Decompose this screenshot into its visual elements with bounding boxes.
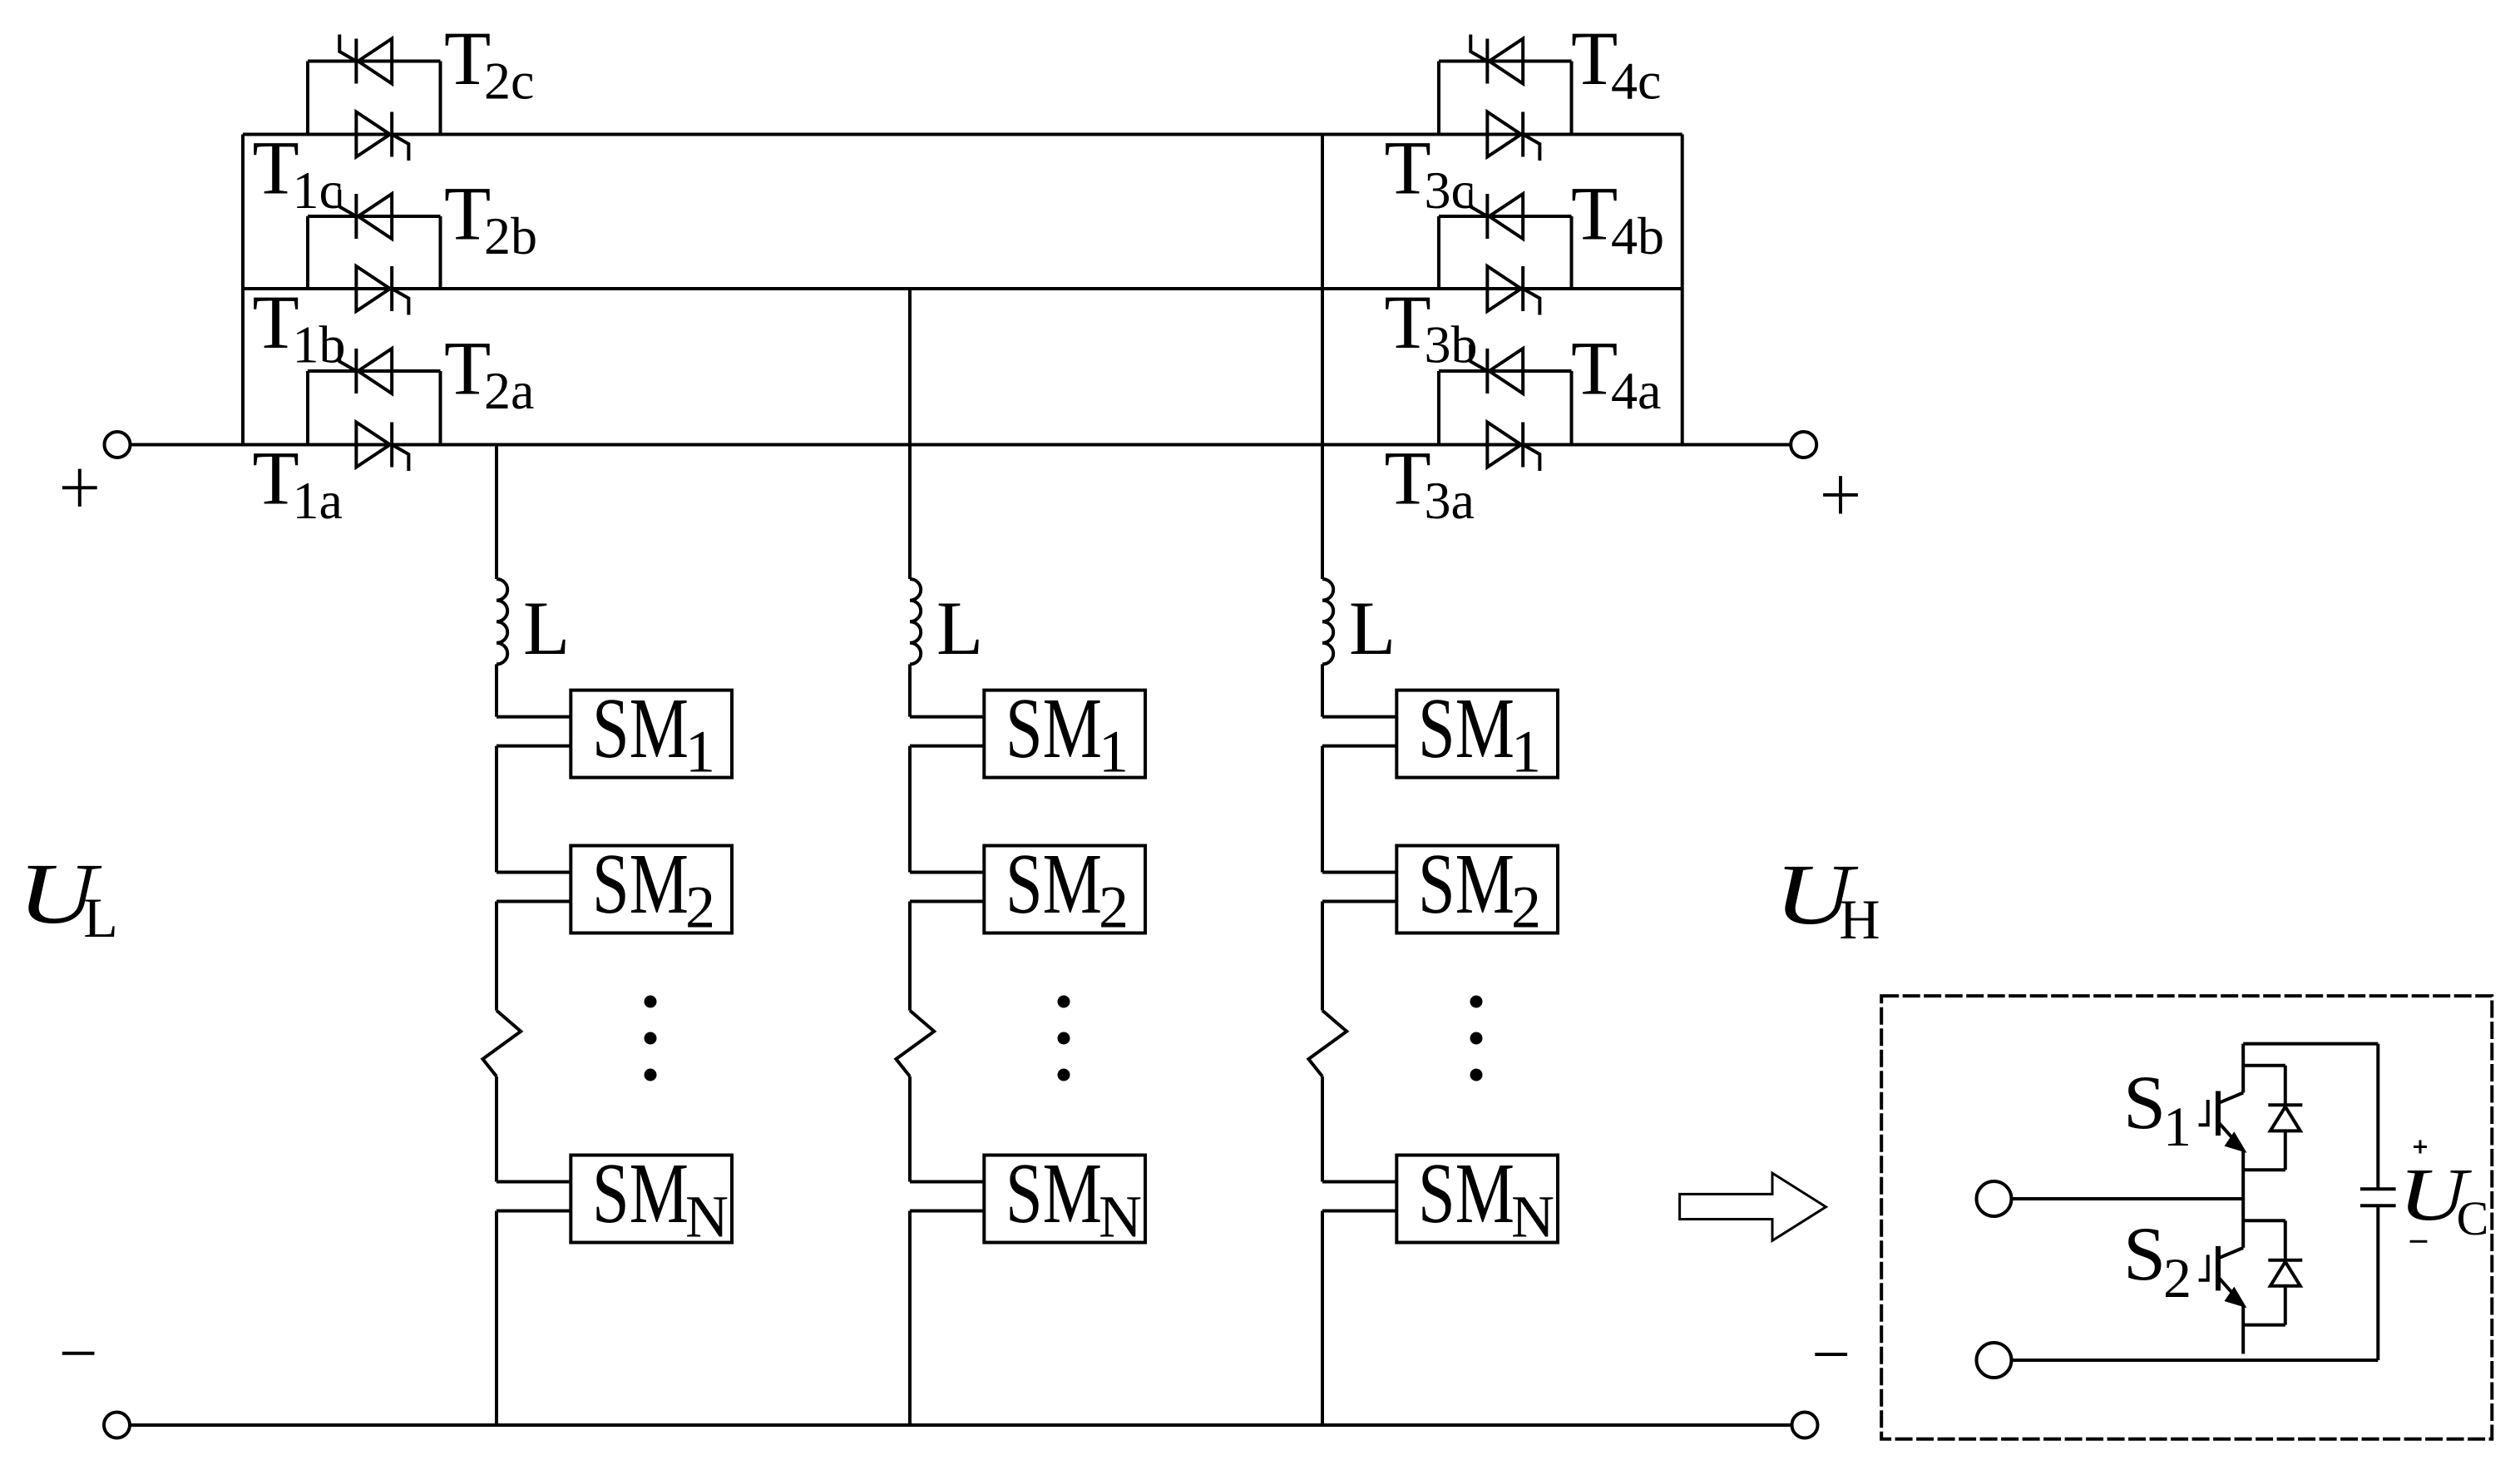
svg-text:S: S — [2123, 1211, 2166, 1296]
svg-text:4c: 4c — [1611, 52, 1661, 111]
wire leg 3 coil to SM1 — [1321, 664, 1324, 716]
svg-text:H: H — [1839, 888, 1880, 951]
thyristor T2a (left-pointing) — [339, 344, 392, 393]
svg-text:2: 2 — [1511, 874, 1541, 941]
thyristor T4c (left-pointing) — [1470, 35, 1523, 84]
thyristor T1b (right-pointing) — [356, 266, 408, 315]
wire top bus row c — [243, 133, 1682, 136]
thyristor T1a (right-pointing) — [356, 423, 408, 472]
svg-text:3c: 3c — [1425, 161, 1475, 220]
wire leg 1 upper vertical — [495, 445, 498, 580]
wire bottom negative bus — [130, 1423, 1792, 1427]
diode D2 antiparallel with S2 — [2243, 1220, 2302, 1324]
dashed submodule detail box — [1881, 996, 2492, 1439]
label UC — [2399, 1154, 2473, 1236]
wire row a right pair left connector — [1437, 371, 1440, 445]
svg-text:3a: 3a — [1425, 471, 1475, 530]
wire leg 3 SMN bottom terminal — [1322, 1210, 1396, 1213]
wire leg 1 SM1 top terminal — [497, 715, 571, 719]
wire row a left pair left connector — [306, 371, 309, 445]
wire main positive bus (left + to right +) — [131, 443, 1791, 447]
wire leg 3 SM2 bottom terminal — [1322, 900, 1396, 903]
svg-text:C: C — [2457, 1191, 2489, 1245]
wire leg 2 upper vertical — [908, 289, 912, 579]
wire leg 2 lower vertical to bottom bus — [908, 1211, 912, 1426]
wire row b right pair left connector — [1437, 216, 1440, 289]
wire middle bus row b — [243, 287, 1682, 290]
svg-text:2: 2 — [2163, 1246, 2191, 1309]
svg-text:3b: 3b — [1425, 315, 1478, 374]
svg-text:SM: SM — [592, 681, 689, 776]
wire leg 3 SM2 top terminal — [1322, 871, 1396, 874]
svg-text:1b: 1b — [293, 315, 346, 374]
wire leg 1 SM2 bottom terminal — [497, 900, 571, 903]
wire leg 3 SMN top terminal — [1322, 1180, 1396, 1184]
svg-text:SM: SM — [1418, 681, 1514, 776]
submodule SM1 leg 3 — [1396, 690, 1558, 778]
wire right vertical bus — [1681, 135, 1684, 445]
wire SM terminal 1 to midpoint — [2012, 1197, 2244, 1200]
wire row c left pair left connector — [306, 62, 309, 135]
inductor L leg 3 — [1322, 579, 1333, 664]
arrow submodule detail — [1680, 1173, 1826, 1240]
diode D1 antiparallel with S1 — [2243, 1066, 2302, 1170]
thyristor T2b (left-pointing) — [339, 190, 392, 239]
wire row c right pair right connector — [1570, 62, 1574, 135]
terminal SM node 2 — [1977, 1343, 2012, 1378]
svg-text:1: 1 — [685, 719, 715, 785]
capacitor UC — [2360, 1189, 2396, 1205]
svg-text:L: L — [523, 586, 570, 671]
wire SM terminal 2 to capacitor negative — [2012, 1359, 2379, 1362]
wire leg 2 coil to SM1 — [908, 664, 912, 716]
svg-text:2a: 2a — [484, 361, 534, 420]
svg-text:SM: SM — [1418, 836, 1514, 932]
wire leg 1 SMN bottom terminal — [497, 1210, 571, 1213]
wire leg 3 SM2 to break — [1321, 902, 1324, 1011]
wire row c left pair top conductor — [308, 60, 441, 63]
svg-text:2c: 2c — [484, 52, 534, 111]
thyristor T2c (left-pointing) — [339, 35, 392, 84]
wire leg 1 SM1 bottom terminal — [497, 745, 571, 748]
wire leg 3 SM1 top terminal — [1322, 715, 1396, 719]
svg-text:4b: 4b — [1611, 206, 1664, 265]
wire leg 3 break to SMN — [1321, 1076, 1324, 1182]
svg-text:SM: SM — [1418, 1146, 1514, 1241]
wire leg 3 SM1 bottom terminal — [1322, 745, 1396, 748]
wire leg 2 SM1 top terminal — [910, 715, 984, 719]
svg-text:N: N — [1099, 1184, 1142, 1250]
wire leg 2 SM2 to break — [908, 902, 912, 1011]
wire row a left pair right connector — [439, 371, 442, 445]
wire capacitor top lead — [2376, 1044, 2379, 1190]
wire break symbol leg 1 — [482, 1011, 521, 1076]
svg-text:2: 2 — [1099, 874, 1129, 941]
transistor S1 (IGBT) — [2199, 1044, 2244, 1199]
submodule SM1 leg 1 — [571, 690, 732, 778]
wire leg 2 SMN top terminal — [910, 1180, 984, 1184]
thyristor T1c (right-pointing) — [356, 112, 408, 161]
ellipsis dots leg 1 — [645, 996, 657, 1008]
ellipsis dots leg 2 — [1058, 996, 1070, 1008]
label UH — [1775, 847, 1860, 943]
submodule SMN leg 2 — [984, 1156, 1145, 1243]
label UL — [18, 846, 103, 942]
terminal right negative — [1792, 1413, 1818, 1438]
wire row c right pair left connector — [1437, 62, 1440, 135]
svg-text:SM: SM — [592, 1146, 689, 1241]
wire leg 3 lower vertical to bottom bus — [1321, 1211, 1324, 1426]
ellipsis dots leg 3 — [1470, 996, 1483, 1008]
submodule SM2 leg 2 — [984, 846, 1145, 933]
wire leg 2 break to SMN — [908, 1076, 912, 1182]
wire leg 1 SM2 top terminal — [497, 871, 571, 874]
wire leg 1 lower vertical to bottom bus — [495, 1211, 498, 1426]
wire row a left pair top conductor — [308, 369, 441, 373]
wire capacitor bottom lead — [2376, 1205, 2379, 1360]
svg-text:2b: 2b — [484, 206, 537, 265]
plus sign right — [1823, 476, 1858, 513]
terminal SM node 1 — [1977, 1181, 2012, 1216]
wire leg 3 SM1 to SM2 — [1321, 746, 1324, 873]
wire leg 2 SM2 top terminal — [910, 871, 984, 874]
svg-text:N: N — [685, 1184, 729, 1250]
minus sign capacitor — [2410, 1240, 2428, 1243]
wire leg 2 SM2 bottom terminal — [910, 900, 984, 903]
minus sign left — [62, 1352, 95, 1355]
thyristor T3c (right-pointing) — [1487, 112, 1539, 161]
svg-text:SM: SM — [1006, 1146, 1102, 1241]
svg-text:1: 1 — [2163, 1095, 2191, 1158]
svg-text:SM: SM — [592, 836, 689, 932]
submodule SM2 leg 1 — [571, 846, 732, 933]
svg-text:1c: 1c — [293, 161, 343, 220]
terminal right positive — [1791, 432, 1816, 458]
wire row a right pair right connector — [1570, 371, 1574, 445]
inductor L leg 2 — [910, 579, 921, 664]
minus sign right — [1815, 1353, 1847, 1356]
svg-text:1a: 1a — [293, 471, 343, 530]
inductor L leg 1 — [497, 579, 507, 664]
thyristor T4a (left-pointing) — [1470, 344, 1523, 393]
svg-text:2: 2 — [685, 874, 715, 941]
wire row a right pair top conductor — [1439, 369, 1572, 373]
wire leg 1 SM1 to SM2 — [495, 746, 498, 873]
svg-text:S: S — [2123, 1060, 2166, 1145]
transistor S2 (IGBT) — [2199, 1199, 2244, 1354]
wire leg 1 SM2 to break — [495, 902, 498, 1011]
wire row b right pair top conductor — [1439, 215, 1572, 218]
terminal left positive — [105, 432, 131, 458]
wire row b left pair left connector — [306, 216, 309, 289]
thyristor T4b (left-pointing) — [1470, 190, 1523, 239]
wire leg 1 coil to SM1 — [495, 664, 498, 716]
svg-text:1: 1 — [1099, 719, 1129, 785]
thyristor T3a (right-pointing) — [1487, 423, 1539, 472]
wire row b right pair right connector — [1570, 216, 1574, 289]
submodule SM1 leg 2 — [984, 690, 1145, 778]
submodule SMN leg 3 — [1396, 1156, 1558, 1243]
svg-text:SM: SM — [1006, 836, 1102, 932]
svg-text:N: N — [1511, 1184, 1554, 1250]
svg-text:L: L — [1349, 586, 1396, 671]
plus sign left — [62, 469, 97, 507]
svg-text:4a: 4a — [1611, 361, 1661, 420]
thyristor T3b (right-pointing) — [1487, 266, 1539, 315]
wire top rail S1 collector to capacitor — [2243, 1042, 2378, 1046]
wire row b left pair right connector — [439, 216, 442, 289]
wire leg 1 SMN top terminal — [497, 1180, 571, 1184]
wire leg 1 break to SMN — [495, 1076, 498, 1182]
plus sign capacitor — [2414, 1141, 2427, 1154]
wire leg 3 upper vertical — [1321, 135, 1324, 580]
wire leg 2 SM1 bottom terminal — [910, 745, 984, 748]
submodule SMN leg 1 — [571, 1156, 732, 1243]
submodule SM2 leg 3 — [1396, 846, 1558, 933]
svg-text:SM: SM — [1006, 681, 1102, 776]
svg-text:1: 1 — [1511, 719, 1541, 785]
wire break symbol leg 2 — [896, 1011, 934, 1076]
wire break symbol leg 3 — [1308, 1011, 1346, 1076]
terminal left negative — [104, 1413, 130, 1438]
svg-text:L: L — [83, 886, 118, 949]
wire row c left pair right connector — [439, 62, 442, 135]
wire row b left pair top conductor — [308, 215, 441, 218]
wire leg 2 SMN bottom terminal — [910, 1210, 984, 1213]
wire leg 2 SM1 to SM2 — [908, 746, 912, 873]
wire row c right pair top conductor — [1439, 60, 1572, 63]
svg-text:L: L — [936, 586, 983, 671]
wire left vertical bus — [241, 135, 245, 445]
